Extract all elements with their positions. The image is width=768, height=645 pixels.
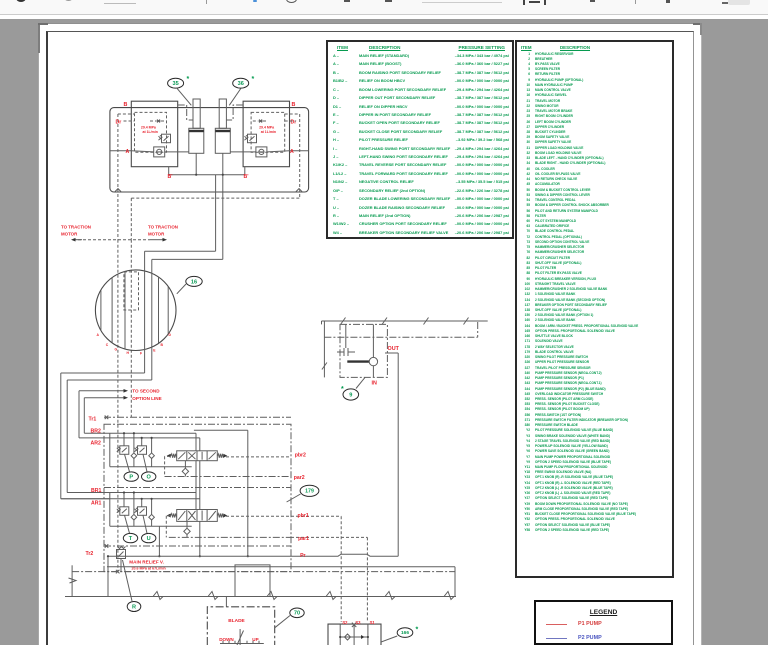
svg-text:Dr: Dr bbox=[116, 120, 122, 126]
svg-text:MOTOR: MOTOR bbox=[148, 231, 165, 236]
svg-text:179: 179 bbox=[305, 489, 314, 495]
svg-text:AR2: AR2 bbox=[91, 441, 101, 447]
svg-text:Pr: Pr bbox=[300, 553, 305, 559]
svg-text:B': B' bbox=[168, 174, 173, 180]
svg-text:T: T bbox=[129, 536, 133, 542]
svg-text:*: * bbox=[252, 76, 255, 83]
svg-text:35: 35 bbox=[172, 81, 178, 87]
svg-text:BR2: BR2 bbox=[91, 428, 101, 434]
svg-text:at 1L/min: at 1L/min bbox=[261, 130, 276, 134]
svg-text:S1: S1 bbox=[370, 620, 376, 625]
svg-text:16: 16 bbox=[191, 279, 197, 285]
svg-text:F: F bbox=[140, 352, 142, 356]
svg-text:B: B bbox=[292, 102, 296, 108]
svg-text:P: P bbox=[129, 475, 133, 481]
svg-text:DOWN: DOWN bbox=[219, 637, 234, 642]
svg-text:D: D bbox=[169, 333, 172, 337]
svg-text:U: U bbox=[147, 536, 151, 542]
svg-text:B': B' bbox=[244, 174, 249, 180]
svg-text:Tr1: Tr1 bbox=[89, 416, 97, 422]
svg-text:H: H bbox=[127, 351, 130, 355]
svg-text:AR1: AR1 bbox=[91, 501, 101, 507]
svg-text:C: C bbox=[106, 343, 109, 347]
svg-text:A: A bbox=[290, 149, 294, 155]
svg-text:MOTOR: MOTOR bbox=[61, 231, 78, 236]
svg-text:29.4 MPa: 29.4 MPa bbox=[259, 125, 274, 129]
svg-text:S2: S2 bbox=[342, 620, 348, 625]
svg-text:Dr: Dr bbox=[291, 120, 297, 126]
svg-text:A: A bbox=[97, 333, 100, 337]
svg-text:par1: par1 bbox=[298, 536, 309, 542]
svg-text:E: E bbox=[153, 348, 156, 352]
svg-text:TO TRACTION: TO TRACTION bbox=[148, 225, 178, 230]
svg-text:36: 36 bbox=[238, 81, 244, 87]
svg-text:B: B bbox=[124, 102, 128, 108]
svg-text:B: B bbox=[161, 343, 164, 347]
svg-text:OPTION LINE: OPTION LINE bbox=[132, 396, 161, 401]
svg-text:par2: par2 bbox=[294, 475, 305, 481]
svg-text:BLADE: BLADE bbox=[228, 618, 245, 624]
svg-text:pbr1: pbr1 bbox=[298, 513, 309, 519]
svg-text:OUT: OUT bbox=[388, 346, 400, 352]
svg-text:29.4 MPa: 29.4 MPa bbox=[141, 125, 156, 129]
svg-text:A: A bbox=[126, 149, 130, 155]
svg-text:TO SECOND: TO SECOND bbox=[132, 389, 160, 394]
svg-text:O: O bbox=[147, 475, 152, 481]
svg-text:at 1L/min: at 1L/min bbox=[143, 130, 158, 134]
svg-text:TO TRACTION: TO TRACTION bbox=[61, 225, 91, 230]
svg-text:G: G bbox=[115, 348, 118, 352]
svg-text:BR1: BR1 bbox=[91, 488, 101, 494]
svg-text:9: 9 bbox=[349, 392, 352, 398]
svg-text:*: * bbox=[416, 627, 419, 634]
svg-text:pbr2: pbr2 bbox=[295, 453, 306, 459]
svg-text:R: R bbox=[132, 604, 136, 610]
svg-text:166: 166 bbox=[401, 630, 409, 636]
svg-text:S3: S3 bbox=[355, 620, 361, 625]
svg-text:70: 70 bbox=[294, 611, 300, 617]
svg-text:*: * bbox=[187, 76, 190, 83]
svg-text:MAIN RELIEF V.: MAIN RELIEF V. bbox=[129, 560, 164, 565]
svg-text:IN: IN bbox=[372, 381, 377, 387]
svg-text:Tr2: Tr2 bbox=[86, 551, 94, 557]
